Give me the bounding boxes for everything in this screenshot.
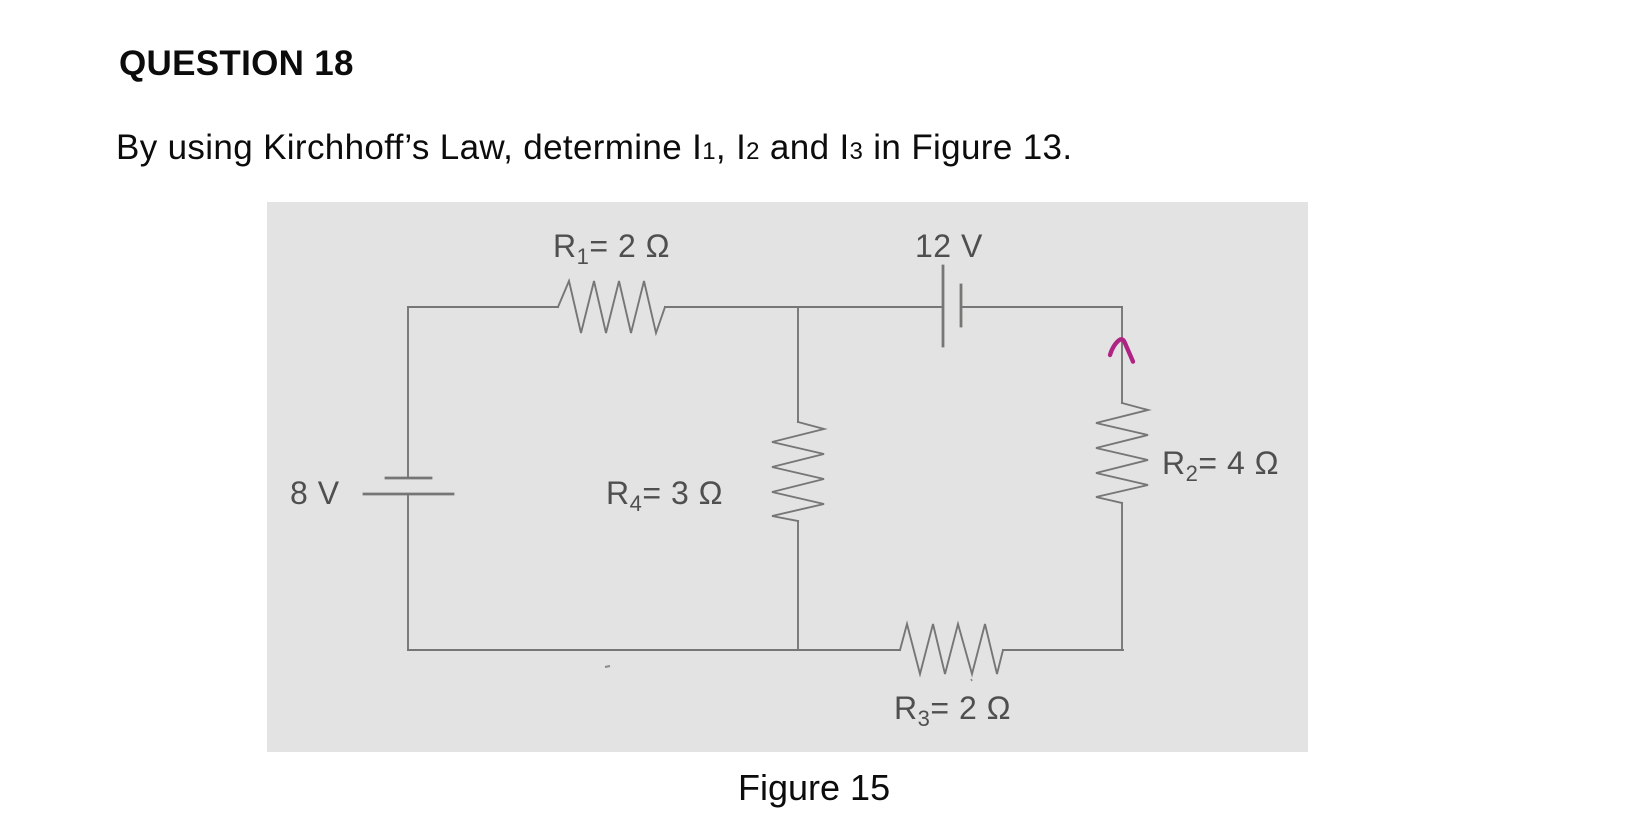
battery V1 8V short plate [386, 477, 431, 480]
svg-text:R1= 2 Ω: R1= 2 Ω [553, 228, 670, 269]
resistor R3 [900, 624, 1003, 674]
wire bottom-left segment [408, 649, 900, 651]
wire bottom-right segment [1003, 649, 1123, 651]
svg-text:R3= 2 Ω: R3= 2 Ω [894, 690, 1011, 731]
wire middle branch upper [797, 307, 799, 422]
prompt text [116, 128, 1072, 168]
resistor R1 [558, 281, 665, 333]
wire right lower segment [1121, 503, 1123, 650]
resistor R2 [1096, 403, 1148, 503]
svg-text:8 V: 8 V [290, 475, 340, 511]
circuit panel [267, 202, 1308, 752]
title QUESTION 18 [119, 44, 354, 84]
wire top-right segment [961, 306, 1122, 308]
stray mark under R3 [971, 679, 972, 681]
wire left lower segment [407, 494, 409, 650]
battery V1 8V long plate [364, 493, 453, 496]
svg-text:12 V: 12 V [915, 228, 983, 264]
wire middle branch lower [797, 521, 799, 650]
wire left upper segment [407, 307, 409, 478]
wire top-left segment [408, 306, 558, 308]
svg-text:R2= 4 Ω: R2= 4 Ω [1162, 445, 1279, 486]
resistor R4 [772, 422, 824, 521]
wire right upper segment [1121, 307, 1123, 403]
battery V2 12V short plate [960, 285, 963, 326]
current arrow I3 [1110, 339, 1133, 361]
stray mark left [605, 666, 610, 667]
wire top-middle segment [665, 306, 943, 308]
svg-text:R4= 3 Ω: R4= 3 Ω [606, 475, 723, 516]
caption Figure 15 [738, 767, 890, 809]
battery V2 12V long plate [942, 266, 945, 346]
